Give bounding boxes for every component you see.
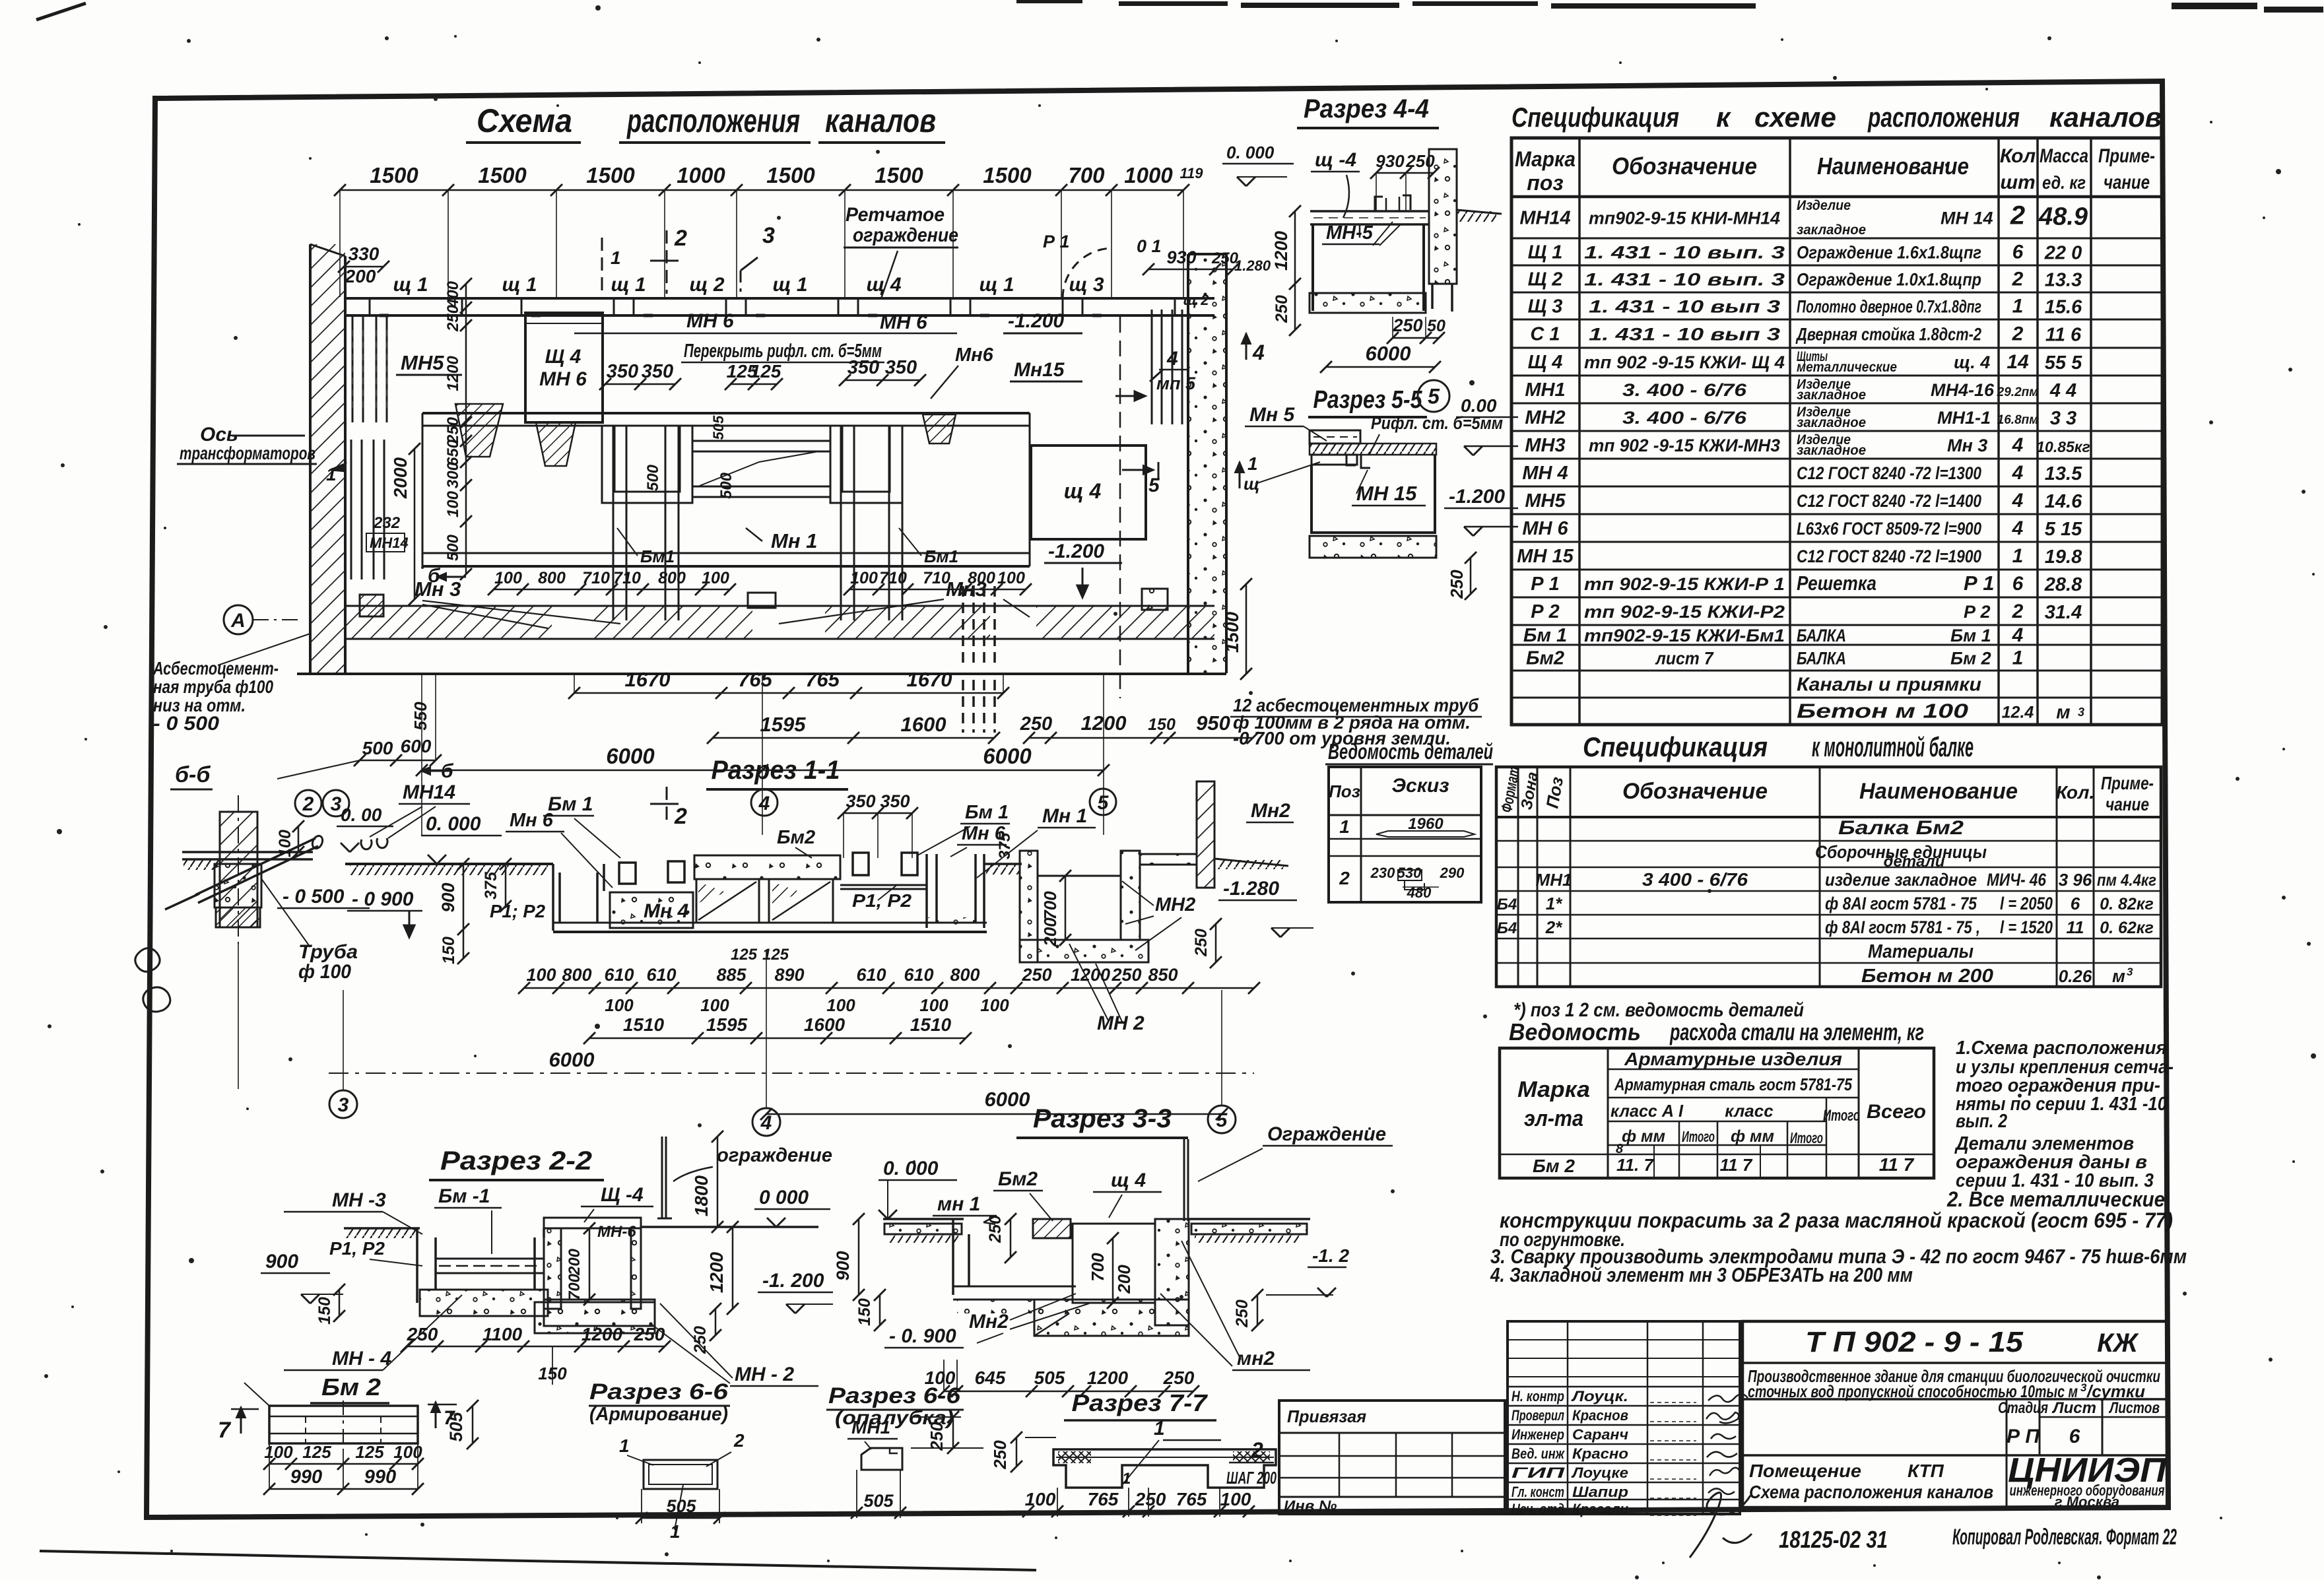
axis circle 4 xyxy=(751,789,778,816)
section 3-3 Бм2 hatched block xyxy=(1033,1219,1071,1238)
svg-text:11 6: 11 6 xyxy=(2045,325,2082,346)
svg-text:1200: 1200 xyxy=(1071,965,1110,985)
svg-text:щ 1: щ 1 xyxy=(502,274,537,296)
section 3-3 floor concrete xyxy=(1034,1300,1189,1336)
svg-text:Бм1: Бм1 xyxy=(640,546,675,566)
section 2-2 right ground xyxy=(641,1226,818,1228)
axis circle 5 xyxy=(1090,789,1116,815)
svg-text:1670: 1670 xyxy=(907,668,952,691)
svg-text:119: 119 xyxy=(1179,165,1203,181)
svg-text:l = 2050: l = 2050 xyxy=(2000,894,2053,913)
steel table grid xyxy=(1500,1048,1934,1178)
svg-text:2: 2 xyxy=(674,804,687,829)
svg-text:Ведомость: Ведомость xyxy=(1509,1018,1641,1045)
svg-text:шт: шт xyxy=(2000,172,2035,193)
section 2-2 fence post xyxy=(661,1137,663,1218)
svg-text:2: 2 xyxy=(1251,1438,1263,1462)
svg-text:4. Закладной элемент мн 3 О: 4. Закладной элемент мн 3 ОБРЕЗАТЬ на 20… xyxy=(1490,1263,1913,1286)
plan channel end verticals xyxy=(422,413,424,566)
svg-text:4 4: 4 4 xyxy=(2049,380,2076,401)
svg-text:Приме-: Приме- xyxy=(2101,773,2154,793)
svg-text:2: 2 xyxy=(2010,201,2025,230)
svg-text:Балка Бм2: Балка Бм2 xyxy=(1838,817,1964,839)
section 1-1 dims 350 350 left xyxy=(844,812,912,814)
svg-text:930: 930 xyxy=(1166,247,1196,267)
svg-text:100: 100 xyxy=(276,830,294,857)
svg-text:0. 000: 0. 000 xyxy=(1226,143,1275,162)
svg-text:щ 4: щ 4 xyxy=(1064,479,1102,503)
svg-text:Н. контр: Н. контр xyxy=(1511,1388,1564,1404)
svg-text:МН 6: МН 6 xyxy=(880,312,927,333)
svg-text:100: 100 xyxy=(826,995,855,1015)
svg-text:1510: 1510 xyxy=(910,1014,952,1035)
svg-text:100: 100 xyxy=(1220,1489,1251,1509)
section 4-4 dim 6000 xyxy=(1326,366,1435,368)
svg-text:1000: 1000 xyxy=(677,163,725,187)
section 1-1 channel 1 xyxy=(553,864,604,931)
detail 6-6 опалубка dim 505 xyxy=(857,1512,900,1514)
svg-text:Мн 6: Мн 6 xyxy=(510,810,554,831)
svg-text:1500: 1500 xyxy=(983,163,1032,187)
plan dim 930-250 top right xyxy=(1148,269,1233,271)
svg-text:600: 600 xyxy=(401,736,432,756)
svg-text:(Армирование): (Армирование) xyxy=(589,1404,728,1425)
svg-text:800: 800 xyxy=(562,965,591,985)
svg-text:350: 350 xyxy=(880,791,910,811)
svg-text:изделие закладное: изделие закладное xyxy=(1825,870,1977,890)
svg-text:1500: 1500 xyxy=(586,163,635,187)
plan cut 5 arrow inside xyxy=(1122,469,1154,471)
svg-text:710: 710 xyxy=(923,569,950,587)
svg-text:250: 250 xyxy=(1233,1300,1251,1328)
svg-text:11: 11 xyxy=(2067,917,2084,937)
svg-text:230: 230 xyxy=(1370,865,1395,881)
plan right margin cut 4 xyxy=(1245,333,1247,360)
svg-text:350: 350 xyxy=(885,357,917,378)
plan right margin 1500 vertical dim xyxy=(1245,584,1247,674)
svg-text:Итого: Итого xyxy=(1682,1128,1715,1145)
svg-text:МН 2: МН 2 xyxy=(1097,1012,1145,1034)
svg-text:б-б: б-б xyxy=(175,762,211,787)
svg-text:Р 1: Р 1 xyxy=(1531,574,1560,595)
svg-text:-1. 2: -1. 2 xyxy=(1312,1245,1349,1266)
svg-text:1: 1 xyxy=(1339,816,1350,837)
svg-text:м: м xyxy=(2112,966,2125,986)
section 4-4 ground right xyxy=(1457,210,1502,214)
svg-text:7: 7 xyxy=(218,1418,232,1443)
svg-text:эл-та: эл-та xyxy=(1524,1106,1583,1131)
svg-text:3: 3 xyxy=(762,223,775,248)
svg-text:5 15: 5 15 xyxy=(2045,519,2082,540)
svg-text:Арматурная сталь гост 5781-75: Арматурная сталь гост 5781-75 xyxy=(1614,1074,1852,1094)
svg-text:трансформаторов: трансформаторов xyxy=(180,443,315,463)
svg-text:1200: 1200 xyxy=(706,1251,727,1293)
svg-text:1: 1 xyxy=(611,247,621,268)
plan foundation pads xyxy=(360,595,383,616)
svg-text:3. 400 - 6/76: 3. 400 - 6/76 xyxy=(1622,408,1747,428)
svg-text:0. 62кг: 0. 62кг xyxy=(2100,919,2154,937)
svg-text:375: 375 xyxy=(996,832,1014,859)
svg-text:Мн15: Мн15 xyxy=(1014,359,1065,381)
svg-text:Бм 1: Бм 1 xyxy=(965,802,1009,823)
plan top wall band with panels xyxy=(345,297,1214,300)
svg-text:1. 431 - 10 вып. 3: 1. 431 - 10 вып. 3 xyxy=(1584,270,1785,290)
plan asbestos pipe dashes lower xyxy=(962,680,964,733)
section 1-1 axis circles xyxy=(329,1090,357,1118)
svg-text:-1.200: -1.200 xyxy=(1449,486,1505,508)
svg-text:100: 100 xyxy=(700,995,729,1015)
svg-text:990: 990 xyxy=(290,1467,322,1488)
svg-text:100: 100 xyxy=(850,569,878,587)
section 4-4 dim 250-50 xyxy=(1393,337,1439,339)
svg-text:10.85кг: 10.85кг xyxy=(2036,438,2090,455)
svg-text:Решетка: Решетка xyxy=(1797,572,1876,595)
svg-text:4: 4 xyxy=(2012,517,2024,539)
svg-text:закладное: закладное xyxy=(1797,415,1866,430)
svg-text:щ 2: щ 2 xyxy=(689,274,724,296)
svg-text:375: 375 xyxy=(482,871,500,900)
svg-text:Бетон м 200: Бетон м 200 xyxy=(1861,966,1993,987)
svg-text:Мн 4: Мн 4 xyxy=(644,900,688,922)
title block middle signature table xyxy=(1508,1321,1740,1514)
svg-text:Красали: Красали xyxy=(1572,1501,1629,1517)
plan right wall concrete xyxy=(1188,254,1226,673)
svg-text:3: 3 xyxy=(2080,1381,2087,1394)
svg-text:3: 3 xyxy=(2078,706,2084,719)
detail Бм2 dims row 1 xyxy=(269,1463,418,1465)
svg-text:1: 1 xyxy=(2012,647,2024,669)
svg-text:100: 100 xyxy=(997,569,1025,587)
Б-Б pipe xyxy=(195,838,315,895)
svg-text:6000: 6000 xyxy=(1366,342,1411,365)
svg-text:ед. кг: ед. кг xyxy=(2042,172,2086,193)
plan funnel hatched left xyxy=(455,404,503,457)
svg-text:3. 400 - 6/76: 3. 400 - 6/76 xyxy=(1622,380,1747,400)
svg-text:1. 431 - 10 вып. 3: 1. 431 - 10 вып. 3 xyxy=(1584,243,1785,263)
svg-text:закладное: закладное xyxy=(1797,387,1866,403)
svg-text:щ 1: щ 1 xyxy=(393,274,428,296)
svg-text:Приме-: Приме- xyxy=(2098,145,2155,167)
svg-text:схеме: схеме xyxy=(1754,102,1836,133)
detail 6-6 армирование sketch xyxy=(644,1460,717,1489)
svg-text:1200: 1200 xyxy=(581,1324,623,1344)
svg-text:1500: 1500 xyxy=(1222,611,1242,653)
svg-text:МН 6: МН 6 xyxy=(1522,518,1568,539)
svg-text:1500: 1500 xyxy=(766,163,815,187)
svg-text:500: 500 xyxy=(362,738,393,758)
svg-text:250: 250 xyxy=(1021,965,1051,985)
svg-text:МН3: МН3 xyxy=(1525,435,1565,456)
svg-text:900: 900 xyxy=(438,882,458,912)
svg-text:МН14: МН14 xyxy=(403,781,455,803)
svg-text:22 0: 22 0 xyxy=(2044,243,2082,264)
svg-text:610: 610 xyxy=(604,965,634,985)
svg-text:18125-02 31: 18125-02 31 xyxy=(1779,1526,1888,1553)
svg-text:мн2: мн2 xyxy=(1237,1348,1275,1369)
plan central channel lower rails xyxy=(422,552,1030,554)
svg-text:350: 350 xyxy=(642,361,673,382)
svg-text:890: 890 xyxy=(774,965,804,985)
svg-text:1.Схема расположения: 1.Схема расположения xyxy=(1956,1038,2167,1059)
svg-text:650: 650 xyxy=(444,439,462,466)
svg-text:МН5: МН5 xyxy=(401,351,444,374)
scan artifact left margin blobs xyxy=(135,948,160,972)
svg-text:ограждение: ограждение xyxy=(717,1144,832,1166)
svg-text:щ 1: щ 1 xyxy=(979,274,1014,296)
svg-text:6: 6 xyxy=(2012,573,2024,595)
svg-text:11 7: 11 7 xyxy=(1879,1154,1915,1175)
svg-text:16.8пм: 16.8пм xyxy=(1997,413,2039,427)
svg-text:765: 765 xyxy=(1088,1489,1119,1509)
svg-text:Ведомость деталей: Ведомость деталей xyxy=(1328,739,1493,764)
svg-text:Схема: Схема xyxy=(477,102,572,139)
svg-text:Б4: Б4 xyxy=(1497,896,1517,913)
section 4-4 dim 930-250 xyxy=(1376,172,1434,174)
detail Бм2 dims row 2 xyxy=(269,1488,418,1490)
svg-text:щ 4: щ 4 xyxy=(1111,1170,1146,1191)
section 5-5 dim 250 xyxy=(1470,558,1472,594)
section 1-1 dim row 1510 1595 1600 1510 xyxy=(589,1038,966,1039)
svg-text:800: 800 xyxy=(950,965,979,985)
svg-text:100: 100 xyxy=(264,1442,293,1462)
svg-text:Арматурные изделия: Арматурные изделия xyxy=(1624,1049,1842,1069)
svg-text:г Москва: г Москва xyxy=(2055,1494,2119,1510)
svg-text:1595: 1595 xyxy=(760,713,807,736)
detail Бм2 beam xyxy=(269,1406,418,1443)
svg-text:1670: 1670 xyxy=(625,668,671,691)
svg-text:Мн 1: Мн 1 xyxy=(1042,805,1087,827)
svg-text:885: 885 xyxy=(716,965,747,985)
svg-text:13.5: 13.5 xyxy=(2045,463,2082,484)
sheet frame xyxy=(147,81,2168,1517)
svg-text:5: 5 xyxy=(1428,385,1440,409)
section 1-1 bottom slab band xyxy=(553,922,987,924)
svg-text:0 1: 0 1 xyxy=(1137,236,1162,256)
svg-text:Асбестоцемент-: Асбестоцемент- xyxy=(152,658,279,678)
svg-text:ф 100: ф 100 xyxy=(298,961,351,983)
svg-text:Стадия: Стадия xyxy=(1998,1399,2048,1417)
svg-text:765: 765 xyxy=(805,668,840,691)
svg-text:-1.280: -1.280 xyxy=(1223,878,1279,900)
svg-text:расположения: расположения xyxy=(1867,102,2020,133)
svg-text:232: 232 xyxy=(373,514,401,532)
section 4-4 top slab xyxy=(1310,210,1429,213)
scan artifact top-left diagonal xyxy=(36,3,86,20)
svg-text:Мн 5: Мн 5 xyxy=(1249,404,1295,426)
svg-text:МН14: МН14 xyxy=(1519,208,1570,229)
svg-text:Ограждение: Ограждение xyxy=(1267,1123,1386,1145)
svg-text:Бм 1: Бм 1 xyxy=(548,793,593,815)
section 5-5 left block xyxy=(1310,430,1360,444)
section 1-1 channel 2 xyxy=(927,854,984,928)
svg-text:Щ 3: Щ 3 xyxy=(1528,296,1563,317)
plan dim 330/200 top-left xyxy=(344,266,383,268)
section 3-3 ground left xyxy=(883,1218,964,1220)
svg-text:тп902-9-15 КНИ-МН14: тп902-9-15 КНИ-МН14 xyxy=(1589,209,1780,228)
plan cut-line 2 bottom xyxy=(666,787,668,825)
plan inner diagonal leader xyxy=(700,451,818,486)
svg-text:250: 250 xyxy=(927,1422,946,1451)
plan cut-line 1 top dashes xyxy=(601,238,603,294)
svg-text:МН14: МН14 xyxy=(370,535,409,551)
section 2-2 bottom concrete xyxy=(420,1290,548,1316)
svg-text:l = 1520: l = 1520 xyxy=(2000,917,2053,937)
svg-text:150: 150 xyxy=(855,1298,874,1326)
svg-text:765: 765 xyxy=(1176,1489,1207,1509)
svg-text:ГИП: ГИП xyxy=(1511,1465,1566,1481)
svg-text:Инв №: Инв № xyxy=(1284,1498,1337,1515)
svg-text:Рифл. ст. б=5мм: Рифл. ст. б=5мм xyxy=(1371,413,1503,433)
svg-text:710: 710 xyxy=(582,569,610,587)
svg-text:1000: 1000 xyxy=(1124,163,1173,187)
svg-text:800: 800 xyxy=(658,569,686,587)
plan right pit Щ4 xyxy=(1031,445,1146,539)
svg-text:100: 100 xyxy=(919,995,948,1015)
svg-text:6000: 6000 xyxy=(549,1048,595,1071)
pit hatch funnel below xyxy=(536,422,576,466)
plan dims 350-350 right xyxy=(845,379,920,381)
plan left wall hatched xyxy=(310,244,345,673)
svg-text:МН -3: МН -3 xyxy=(332,1189,386,1211)
svg-text:МН 14: МН 14 xyxy=(1941,209,1993,228)
svg-text:125: 125 xyxy=(355,1442,384,1462)
svg-text:930: 930 xyxy=(1376,151,1405,171)
svg-text:1600: 1600 xyxy=(901,713,946,736)
svg-text:Итого: Итого xyxy=(1790,1129,1823,1146)
svg-text:800: 800 xyxy=(968,569,995,587)
section 5-5 anchor angles xyxy=(1346,455,1370,468)
svg-text:125: 125 xyxy=(302,1442,331,1462)
svg-text:6000: 6000 xyxy=(983,744,1032,768)
svg-text:Щ -4: Щ -4 xyxy=(601,1184,644,1206)
svg-text:Всего: Всего xyxy=(1867,1101,1926,1123)
svg-text:710: 710 xyxy=(613,569,641,587)
Б-Б anchor clips xyxy=(361,838,387,849)
plan dims 350-350 left xyxy=(605,383,675,385)
svg-text:350: 350 xyxy=(607,361,638,382)
svg-text:1.280: 1.280 xyxy=(1234,257,1271,274)
svg-text:МН4-16: МН4-16 xyxy=(1931,380,1995,400)
svg-text:125: 125 xyxy=(750,361,781,381)
svg-text:1500: 1500 xyxy=(875,163,923,187)
svg-text:12.4: 12.4 xyxy=(2002,704,2034,722)
svg-text:Проверил: Проверил xyxy=(1511,1407,1564,1424)
svg-text:Щ 1: Щ 1 xyxy=(1528,242,1563,263)
section 3-3 right ground xyxy=(1189,1218,1310,1220)
svg-text:300: 300 xyxy=(444,461,462,488)
svg-text:250: 250 xyxy=(990,1440,1010,1470)
svg-text:ная труба ф100: ная труба ф100 xyxy=(153,676,273,697)
svg-text:14.6: 14.6 xyxy=(2045,491,2082,512)
svg-text:Бм 1: Бм 1 xyxy=(1523,625,1567,646)
svg-text:700: 700 xyxy=(1088,1253,1108,1282)
svg-text:1200: 1200 xyxy=(1271,231,1291,271)
beam spec grid xyxy=(1496,767,2161,987)
svg-text:щ 3: щ 3 xyxy=(1069,274,1104,296)
scan specks xyxy=(385,36,389,40)
plan beam Бм1 verticals xyxy=(613,426,614,620)
svg-text:250: 250 xyxy=(1020,713,1052,735)
svg-text:610: 610 xyxy=(856,965,886,985)
svg-text:100: 100 xyxy=(1025,1489,1056,1509)
svg-text:1: 1 xyxy=(2012,545,2024,567)
svg-text:Масса: Масса xyxy=(2040,145,2088,167)
section 4-4 anchor clips xyxy=(1375,195,1411,211)
svg-text:1960: 1960 xyxy=(1408,815,1444,833)
svg-text:Каналы и приямки: Каналы и приямки xyxy=(1797,675,1981,696)
svg-text:щ. 4: щ. 4 xyxy=(1954,352,1990,372)
plan inner rail pair B xyxy=(692,486,830,488)
section 5-5 leader to left xyxy=(1255,462,1320,484)
svg-text:Ограждение 1.6х1.8щпг: Ограждение 1.6х1.8щпг xyxy=(1797,243,1981,263)
plan bottom extension lines xyxy=(421,674,422,835)
svg-text:чание: чание xyxy=(2104,172,2150,193)
svg-text:тп 902 -9-15 КЖИ- Щ 4: тп 902 -9-15 КЖИ- Щ 4 xyxy=(1584,352,1785,372)
svg-text:- 0 500: - 0 500 xyxy=(153,713,219,735)
svg-text:150: 150 xyxy=(1148,715,1176,734)
svg-text:тп 902-9-15 КЖИ-Р2: тп 902-9-15 КЖИ-Р2 xyxy=(1584,602,1785,622)
plan dimension extension lines xyxy=(339,190,341,297)
title block signatures squiggles xyxy=(1708,1394,1748,1402)
svg-text:3: 3 xyxy=(2127,966,2133,978)
svg-text:Мн 1: Мн 1 xyxy=(771,529,817,552)
svg-text:Марка: Марка xyxy=(1517,1077,1590,1102)
svg-text:Бм 1: Бм 1 xyxy=(1950,626,1991,645)
svg-text:900: 900 xyxy=(265,1251,298,1272)
svg-text:Бм2: Бм2 xyxy=(1526,648,1564,669)
svg-text:6: 6 xyxy=(2012,242,2024,263)
svg-text:100: 100 xyxy=(605,995,634,1015)
svg-text:1*: 1* xyxy=(1546,894,1563,913)
svg-text:800: 800 xyxy=(538,569,566,587)
svg-text:Р 1: Р 1 xyxy=(1043,232,1070,251)
scan artifact bottom-left long line xyxy=(40,1551,1036,1570)
plan funnel hatched right xyxy=(923,414,956,444)
svg-text:- 0. 900: - 0. 900 xyxy=(889,1325,956,1347)
detail 7-7 dims row xyxy=(1028,1511,1249,1513)
svg-text:МИЧ- 46: МИЧ- 46 xyxy=(1987,870,2047,890)
svg-text:850: 850 xyxy=(1148,965,1178,985)
svg-text:МН - 4: МН - 4 xyxy=(332,1348,391,1369)
svg-text:200: 200 xyxy=(1040,917,1060,947)
svg-text:Лист: Лист xyxy=(2051,1399,2096,1417)
svg-text:2: 2 xyxy=(733,1430,745,1451)
svg-text:1: 1 xyxy=(1154,1418,1165,1439)
svg-text:Бм 2: Бм 2 xyxy=(321,1373,381,1401)
svg-text:11. 7: 11. 7 xyxy=(1616,1155,1654,1175)
section 4-4 concrete wall xyxy=(1429,149,1457,284)
svg-text:м: м xyxy=(2056,702,2070,723)
svg-text:Мн2: Мн2 xyxy=(1251,800,1290,822)
plan 2000 vertical dim xyxy=(414,449,416,599)
svg-text:0. 000: 0. 000 xyxy=(883,1158,939,1179)
svg-text:2: 2 xyxy=(302,793,314,815)
svg-text:19.8: 19.8 xyxy=(2045,546,2082,568)
svg-text:Вед. инж: Вед. инж xyxy=(1511,1445,1565,1462)
svg-text:Поз: Поз xyxy=(1329,781,1360,801)
section 1-1 Бм2 cells with wedges xyxy=(696,879,759,923)
svg-text:505: 505 xyxy=(1034,1368,1065,1388)
section 1-1 ground line left xyxy=(345,863,553,865)
svg-text:закладное: закладное xyxy=(1797,443,1866,458)
title block right part frame xyxy=(1743,1321,2168,1507)
svg-text:0.26: 0.26 xyxy=(2059,966,2092,986)
svg-text:закладное: закладное xyxy=(1797,222,1866,238)
svg-text:класс А I: класс А I xyxy=(1610,1101,1684,1121)
svg-text:БАЛКА: БАЛКА xyxy=(1797,626,1846,645)
axis circles 2 3 xyxy=(295,790,321,816)
svg-text:1100: 1100 xyxy=(482,1324,523,1344)
